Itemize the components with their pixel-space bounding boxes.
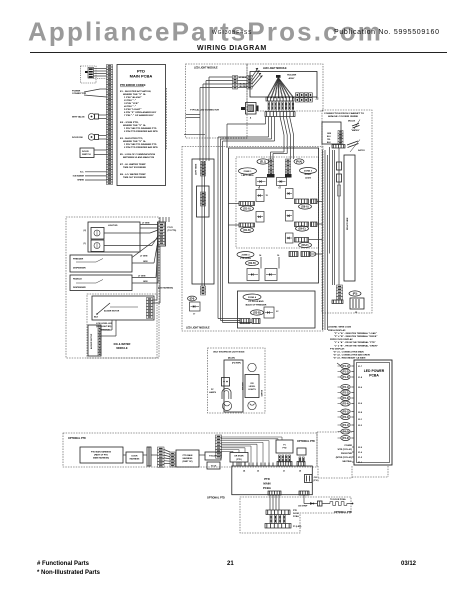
wire zone3 to right edge [310,253,322,255]
dashed boundary power feed [317,466,319,478]
svg-text:(P10): (P10) [314,480,319,482]
wires PCBA down [269,495,271,510]
svg-text:GRN: GRN [327,133,332,135]
svg-text:(P1-3): (P1-3) [342,376,349,379]
connector zone4 bottom a [240,319,250,324]
svg-text:ZONE 1: ZONE 1 [244,171,253,173]
LED module zone1 a [256,178,267,186]
svg-text:P1 (LED): P1 (LED) [293,526,302,528]
svg-text:(D4): (D4) [190,298,195,301]
connector D1-B [239,223,255,227]
wires zone4 to left [218,318,240,320]
wire power connector [84,89,100,92]
connector bar hinge bottom [332,300,343,304]
connector P6 top [297,462,305,467]
connector P3 bottom [268,491,281,495]
fan wires harness [164,450,170,453]
svg-text:# Functional Parts: # Functional Parts [37,561,90,567]
dashed box LED LIGHT MODULE right [247,64,323,111]
freezer dispenser box [70,255,132,272]
svg-text:SWITCH: SWITCH [82,154,91,156]
dashed box LED light module center [182,147,323,332]
svg-text:WIRING DIAGRAM: WIRING DIAGRAM [197,45,267,52]
ice level board [248,363,256,371]
svg-text:ASSY: ASSY [289,77,295,80]
svg-text:WHERE THE "X" IS:: WHERE THE "X" IS: [123,94,146,96]
connector harness right [170,452,175,467]
zone 2 label [300,168,317,174]
svg-text:OPTIONAL PTD: OPTIONAL PTD [68,437,86,440]
lamp socket [222,378,230,387]
water valve [88,113,94,119]
wire to C1 corner [265,117,267,125]
svg-text:HOLDER: HOLDER [287,75,297,77]
svg-text:WGI30BF4SS: WGI30BF4SS [212,30,252,36]
wire to door heater [303,495,305,504]
svg-text:DISPENSER: DISPENSER [73,287,86,289]
svg-text:BOARD: BOARD [260,390,263,397]
zone LED assembly box [229,148,319,283]
svg-text:2 PIN PTD FREEZER AIR RPD: 2 PIN PTD FREEZER AIR RPD [124,146,158,149]
typical LED connector symbol [246,103,257,115]
dashed box connection from cabinet [322,110,372,313]
svg-text:6 PIN "X" OPEN ANKER KEY: 6 PIN "X" OPEN ANKER KEY [124,111,157,114]
svg-text:DOOR SW: DOOR SW [72,137,84,139]
node EL1 [257,159,269,164]
wires between connectors A and B [238,76,248,78]
svg-text:YEL/RED: YEL/RED [239,86,248,88]
left side inner box [197,186,210,217]
svg-text:(D8-A): (D8-A) [301,206,308,209]
svg-text:(P5): (P5) [353,293,358,296]
holder assy box [250,72,317,98]
svg-text:ZONE 4: ZONE 4 [248,296,257,299]
connector block A [233,76,238,90]
svg-text:ICE MAKER: ICE MAKER [73,175,85,178]
LED module left side [190,302,201,311]
wire D1-A to edge [229,203,240,205]
connector door bottom [265,524,291,529]
svg-text:"P" # "A" - DENOTES TERMINAL ": "P" # "A" - DENOTES TERMINAL "LOAD" [334,332,377,335]
svg-text:PCBA: PCBA [369,374,379,378]
svg-text:(D2-B): (D2-B) [248,262,255,265]
svg-text:LEFT SIDE: LEFT SIDE [196,163,198,175]
top edge ticks [236,463,238,467]
svg-text:TYPICAL LED CONNECTOR: TYPICAL LED CONNECTOR [190,109,219,112]
dashed box OPTIONAL PTD lower [240,497,351,533]
svg-text:LED LIGHT MODULE: LED LIGHT MODULE [194,67,218,70]
svg-text:N.C.: N.C. [80,172,84,174]
svg-text:PTD ERROR CODES:: PTD ERROR CODES: [120,83,146,87]
node P1-1 [341,364,350,369]
connector P1 top [277,462,292,467]
node P3-2 [341,415,350,420]
molex connector symbol [352,123,359,126]
svg-text:"P" # "B" - DENOTES TERMINAL ": "P" # "B" - DENOTES TERMINAL "DRIVE" [334,335,377,338]
svg-text:03/12: 03/12 [401,561,417,567]
wire to zone4 left c [274,117,276,142]
svg-text:BLK: BLK [94,317,99,319]
zone 4 box [238,291,316,328]
connector block B [247,76,252,90]
wire bundle optional PTD to PCBA [221,436,282,438]
svg-text:PTD MAIN HARNESS: PTD MAIN HARNESS [91,451,112,454]
svg-text:AUGER MOTOR: AUGER MOTOR [90,333,93,349]
junction box small top [205,452,221,460]
LED module zone1 c [256,212,264,223]
svg-text:PTD: PTD [283,448,288,450]
title rule [30,52,447,54]
node P2-4 [341,401,350,406]
connector auger motor [98,327,101,356]
svg-text:PADDLE: PADDLE [73,278,82,281]
svg-text:SPARE: SPARE [77,179,84,182]
svg-text:(P1-1): (P1-1) [342,365,349,368]
LED module zone3 a [247,269,259,281]
LED module zone2 a [277,178,287,186]
node P4-1 [341,423,350,428]
svg-text:"D" #2 - CONSECUTIVE AND DRIVE: "D" #2 - CONSECUTIVE AND DRIVE [333,354,371,357]
plug symbol [318,501,323,506]
connector door top [266,510,290,515]
switch symbol [97,303,110,314]
connector J10 right [305,475,313,483]
svg-text:LEDS: LEDS [305,178,311,180]
zone 1 label [239,168,257,174]
svg-text:LEVEL: LEVEL [249,386,256,388]
svg-text:(P1-2): (P1-2) [342,371,349,374]
svg-text:FF DOOR AND: FF DOOR AND [248,300,264,303]
svg-text:FREEZER: FREEZER [73,259,84,261]
LED module zone2 b [286,189,294,199]
connector D6-E [295,222,309,227]
connector pins hatch [268,102,270,110]
dispenser lamp 2 [91,240,104,252]
wire fan to connector [276,75,281,78]
node P4-2 [341,429,350,434]
square wave symbol [330,502,347,506]
hinge connector box [322,122,341,144]
svg-text:E1 - SHOOTER ACTUATION,: E1 - SHOOTER ACTUATION, [120,90,152,93]
svg-text:PTD: PTD [264,477,270,481]
connector J1 pin strip of PTD MAIN PCBA [107,65,113,185]
connector hinge bottom [337,285,343,300]
svg-text:ONLY SHOWROOM LIGHT MODE: ONLY SHOWROOM LIGHT MODE [213,352,245,354]
LED module zone2 d [286,233,294,243]
node P2-2 [341,390,350,395]
dashed box OPTIONAL PTD bottom left [63,433,317,467]
svg-text:E2 - ICEM PTD,: E2 - ICEM PTD, [120,122,139,124]
dashed box LED LIGHT MODULE left [186,64,248,138]
node P1-3 [341,375,350,380]
wire D6-E to edge [317,223,322,225]
svg-text:2 PIN PTD FREEZER AIR RPD: 2 PIN PTD FREEZER AIR RPD [124,130,158,133]
svg-text:GRN: GRN [143,261,148,263]
small box right of relay [297,448,306,455]
svg-text:ZONE 2: ZONE 2 [304,171,313,173]
svg-text:4 PIN "-": 4 PIN "-" [124,105,136,108]
svg-text:POWER: POWER [72,91,81,93]
svg-text:(D3-B): (D3-B) [253,312,260,315]
svg-text:"D" #1 - CONSECUTIVE MAIN: "D" #1 - CONSECUTIVE MAIN [333,351,364,354]
connector bundle left [216,435,222,458]
svg-text:MOLEX: MOLEX [348,121,356,123]
connector left side mid [201,192,206,206]
wire D6-F to edge [309,239,323,241]
svg-text:WTR VALVE: WTR VALVE [72,116,85,119]
svg-text:(P3-2): (P3-2) [342,416,349,419]
svg-text:PCBA: PCBA [293,515,299,518]
wires into led power ovals [337,363,341,366]
node P2-1 [341,385,350,390]
svg-text:"J" # "A" - FROM THE TERMINAL: "J" # "A" - FROM THE TERMINAL "PTD" [334,341,376,344]
ptd main harness box right [176,450,199,467]
svg-text:(P2-3): (P2-3) [342,397,349,400]
node D4 [188,296,197,301]
svg-text:E8 - LO. WATER TEMP: E8 - LO. WATER TEMP [120,173,146,176]
ptd main harness box left [80,447,123,463]
svg-text:RIGHT: RIGHT [305,174,312,176]
LED module zone1 b [256,190,264,202]
svg-text:(P2-4): (P2-4) [342,403,349,406]
junction box small bottom [207,462,220,469]
connector D8-A [295,199,309,204]
auger motor box [88,325,101,356]
svg-text:E5 - LOSS OF COMMUNICATION: E5 - LOSS OF COMMUNICATION [120,153,156,156]
svg-text:(MTDR (115V AC): (MTDR (115V AC) [336,456,353,459]
wire to zone4 left b [271,117,273,140]
svg-text:WHERE THE "X" IS:: WHERE THE "X" IS: [123,141,146,143]
svg-text:LT GRN: LT GRN [142,223,150,225]
svg-text:TIME OUT EXCEEDED: TIME OUT EXCEEDED [123,177,146,179]
showroom inner box [224,360,243,412]
connector bar hinge [332,145,345,149]
wires auger up [101,329,112,331]
connector bar bottom [265,112,295,117]
dashed box ICE AND WATER MODULE [87,294,157,358]
relay box above PCBA [276,440,293,453]
node D6-F [299,242,312,247]
svg-text:OPTIONAL PTD: OPTIONAL PTD [297,440,315,443]
svg-text:MAIN PCBA: MAIN PCBA [130,74,153,79]
wires ice module up to dispenser connector [156,246,158,300]
paddle dispenser box [70,275,132,291]
svg-text:(D6-F): (D6-F) [302,244,309,247]
dispenser lamp box [88,222,140,252]
svg-text:PTD: PTD [293,510,298,512]
node P4-3 [341,436,350,441]
svg-text:BETWEEN UI AND MAIN PCB: BETWEEN UI AND MAIN PCB [123,156,155,159]
svg-text:(P3-1): (P3-1) [342,411,349,414]
svg-text:TIME OUT EXCEEDED: TIME OUT EXCEEDED [123,167,146,169]
svg-text:(1): (1) [84,243,87,245]
wire to zone4 left a [268,117,270,138]
pins below small box [299,457,301,462]
connector D6-F [295,238,309,243]
svg-text:(FZ RMP): (FZ RMP) [232,363,241,365]
wire stub left [184,134,205,136]
pins door connector [270,515,272,523]
svg-text:FROM PWR: FROM PWR [341,453,353,455]
svg-text:LIGHT BD: LIGHT BD [108,225,118,227]
svg-text:MAIN HARNESS): MAIN HARNESS) [93,457,109,460]
svg-text:SATCO: SATCO [358,149,365,152]
dashed box showroom light mode [208,348,266,413]
connector ice water right [147,298,153,319]
svg-text:(EL1): (EL1) [260,161,266,164]
LED module zone3 b [265,269,277,281]
node P6A [294,159,304,164]
connector stack zone2 top [286,159,291,175]
bar below zone1 stack [267,174,275,178]
node P5 [349,291,361,296]
connector stack zone1 top [269,159,274,175]
svg-text:1 PIN "ALIGN": 1 PIN "ALIGN" [124,96,142,99]
wires connector A left down to left-side leds [209,76,233,78]
PCB LED POWER PCBA box [354,360,392,465]
connector D6-E2 [311,222,318,227]
svg-text:21: 21 [227,561,234,567]
svg-text:"J" # "B" - FROM THE TERMINAL: "J" # "B" - FROM THE TERMINAL "DRIVE" [334,344,378,347]
svg-text:POWER: POWER [344,445,352,447]
wires LED module to zone box [280,117,284,136]
svg-text:P20/J20: P20/J20 [209,456,217,458]
svg-text:PTD DISPLAY:: PTD DISPLAY: [330,347,345,350]
svg-text:ZONE 3: ZONE 3 [242,255,251,257]
svg-text:"MATES": "MATES" [351,129,360,132]
svg-text:OPTIONAL PTD: OPTIONAL PTD [207,497,225,500]
dashed box dispenser module [66,217,159,358]
svg-text:LED LIGHT MODULE: LED LIGHT MODULE [263,67,287,70]
LED module zone4 [264,307,274,318]
left side LED box [192,159,214,284]
svg-text:CN STRIP: CN STRIP [298,506,308,508]
right side leds box [344,155,355,281]
svg-text:LED POWER: LED POWER [364,369,385,373]
svg-text:WTR (115V AC): WTR (115V AC) [338,448,353,451]
zone 4 label [243,294,261,300]
svg-text:LT GRN: LT GRN [140,256,148,258]
svg-text:LAMPS: LAMPS [209,391,217,394]
svg-text:FRESH DISPLAY:: FRESH DISPLAY: [328,329,346,332]
zone 3 label [237,252,254,258]
door harness box [126,452,143,463]
svg-text:DOOR: DOOR [293,513,300,515]
svg-text:LED LIGHT MODULE: LED LIGHT MODULE [186,327,210,330]
svg-text:(PTD): (PTD) [236,459,242,461]
svg-text:(P4-3): (P4-3) [342,437,349,440]
connector D1-A [239,202,255,206]
dashed inner zone1 zone2 box [236,157,319,248]
svg-text:AUGER MOTOR: AUGER MOTOR [104,310,120,313]
connector zone3 BLK [289,252,298,257]
wires connector B to led strip with arrows [252,68,258,77]
LED module zone2 c [286,211,294,222]
svg-text:(PART OF): (PART OF) [183,460,193,463]
svg-text:(D1-A): (D1-A) [243,208,250,211]
stubs connector J1/P1 up [159,217,161,222]
svg-text:TO UI: TO UI [211,466,217,468]
wire D1-B to edge [229,224,240,226]
wire with connectors right side [332,150,334,285]
node zone3 right [309,252,316,256]
harness bar [147,447,151,466]
pins below relay box [279,455,281,462]
connector zone4 bottom b [252,319,260,324]
svg-text:3 PIN "ICE": 3 PIN "ICE" [124,103,139,105]
svg-text:* Non-Illustrated Parts: * Non-Illustrated Parts [37,570,101,576]
sensor box small [230,453,248,463]
svg-text:(P2-2): (P2-2) [342,392,349,395]
connector P8 bottom [299,491,309,495]
svg-text:RIGHT SIDE: RIGHT SIDE [347,217,349,230]
node D2-B [246,260,259,265]
svg-text:E3 - SHOOTER PTD,: E3 - SHOOTER PTD, [120,138,143,140]
svg-text:YEL/BLK: YEL/BLK [239,83,248,85]
dashed boundary right of PTD PCBA [166,88,168,150]
svg-text:HINGE COVER WIRE: HINGE COVER WIRE [328,116,359,118]
svg-text:LT. BLU: LT. BLU [239,77,247,79]
svg-text:"D" #3 - REDUNDANT CA MAIN: "D" #3 - REDUNDANT CA MAIN [333,357,366,360]
door switch box [80,148,94,158]
svg-text:DOOR: DOOR [82,151,89,153]
svg-text:(D1-B): (D1-B) [243,229,250,232]
bar below zone2 stack [285,174,292,178]
ice water switch box [92,296,154,320]
svg-text:CONNECTION FROM CABINET TO: CONNECTION FROM CABINET TO [324,112,365,115]
svg-text:(2): (2) [84,230,87,232]
connector J1/P1 dispenser [158,222,166,246]
wires UI to strip [94,68,107,70]
svg-text:MAIN: MAIN [263,482,270,486]
node D1-A [241,206,254,211]
node P3-1 [341,409,350,414]
UI display connector box [81,66,97,83]
dispenser switch [88,134,94,140]
svg-text:Publication No. 5995509160: Publication No. 5995509160 [334,29,440,36]
svg-text:WHERE THE "X" IS:: WHERE THE "X" IS: [123,125,146,127]
connector zone3 RED [301,252,310,257]
svg-text:DR SNSR: DR SNSR [234,456,244,458]
svg-text:LT GRN: LT GRN [138,276,146,278]
svg-text:HARNESS: HARNESS [183,457,193,460]
svg-text:ICE & WATER: ICE & WATER [114,342,131,346]
node P2-3 [341,396,350,401]
connector hinge top [338,131,343,145]
svg-text:LEFT LEDS: LEFT LEDS [242,175,254,177]
svg-text:E7 - HI. WATER TEMP: E7 - HI. WATER TEMP [120,163,146,166]
lamp horseshoe [222,388,231,399]
svg-text:7 PIN "-" OF ANKER KEY: 7 PIN "-" OF ANKER KEY [124,114,154,117]
svg-text:(P6A): (P6A) [296,161,302,164]
svg-text:5 PIN "LIGHT": 5 PIN "LIGHT" [124,109,142,111]
svg-text:HARNESS: HARNESS [130,458,140,461]
node P1-2 [341,369,350,374]
connector J5 [350,298,364,309]
node D1-B [241,227,254,232]
svg-text:BACK OF FREEZER: BACK OF FREEZER [246,303,267,306]
wire D8-A to edge [317,201,322,203]
svg-text:LEGEND: WIRE CODE: LEGEND: WIRE CODE [328,327,352,329]
svg-text:OPTIONAL PTD: OPTIONAL PTD [334,511,352,514]
svg-text:PTD LEDS: PTD LEDS [240,258,251,260]
lamp circle [222,401,231,410]
svg-text:DISPENSER: DISPENSER [73,268,86,270]
svg-text:AppliancePartsPros.com: AppliancePartsPros.com [28,17,383,47]
svg-text:(PART OF PTD: (PART OF PTD [94,454,108,457]
svg-text:(D6-E): (D6-E) [298,228,305,231]
svg-text:2 PIN "-": 2 PIN "-" [124,100,136,102]
